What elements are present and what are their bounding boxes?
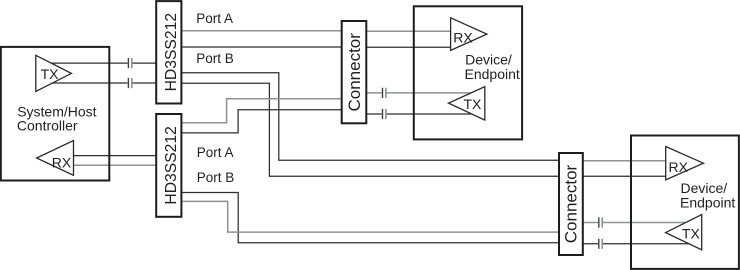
svg-text:Port A: Port A [196,11,233,26]
svg-text:Port B: Port B [197,170,235,185]
svg-text:RX: RX [52,154,72,170]
svg-text:RX: RX [669,159,689,175]
svg-text:Connector: Connector [345,33,364,112]
svg-text:Endpoint: Endpoint [465,66,520,82]
svg-text:HD3SS212: HD3SS212 [163,13,180,91]
svg-text:RX: RX [453,30,473,46]
svg-text:HD3SS212: HD3SS212 [163,126,180,204]
svg-text:TX: TX [682,226,701,242]
svg-text:Connector: Connector [562,164,581,243]
svg-text:Controller: Controller [17,117,78,133]
svg-text:Endpoint: Endpoint [680,194,735,210]
svg-text:Port A: Port A [197,145,234,160]
svg-text:Port B: Port B [196,51,234,66]
svg-text:TX: TX [464,96,483,112]
svg-text:TX: TX [41,66,60,82]
